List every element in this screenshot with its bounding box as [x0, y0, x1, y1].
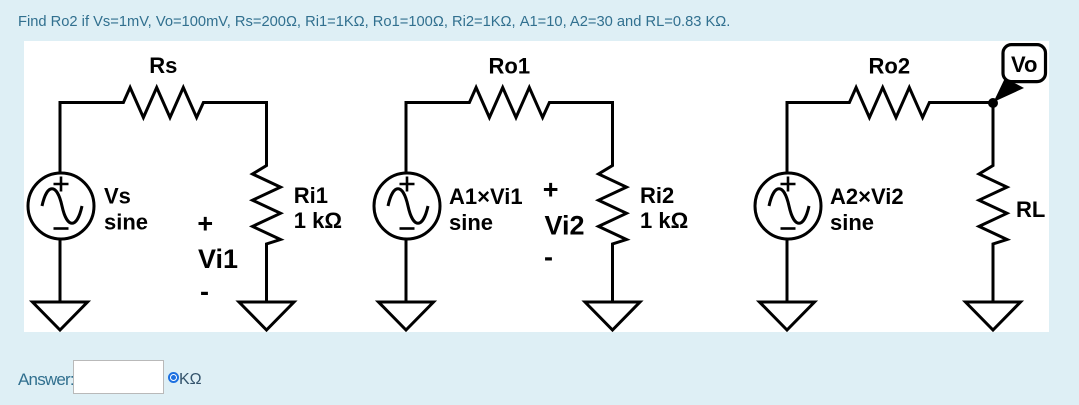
- svg-text:sine: sine: [830, 210, 874, 235]
- svg-text:1 kΩ: 1 kΩ: [640, 208, 688, 233]
- svg-text:Ri2: Ri2: [640, 183, 674, 208]
- svg-text:+: +: [543, 175, 559, 205]
- svg-text:sine: sine: [449, 210, 493, 235]
- svg-text:A1×Vi1: A1×Vi1: [449, 184, 523, 209]
- svg-text:Vi1: Vi1: [198, 244, 238, 274]
- svg-text:Ro1: Ro1: [489, 54, 531, 79]
- svg-text:Vo: Vo: [1011, 52, 1037, 77]
- svg-text:-: -: [200, 277, 209, 307]
- svg-text:Rs: Rs: [149, 53, 177, 78]
- svg-text:-: -: [544, 242, 553, 272]
- svg-text:Ri1: Ri1: [294, 183, 328, 208]
- svg-text:Vi2: Vi2: [545, 211, 585, 241]
- svg-text:+: +: [197, 209, 213, 239]
- svg-text:Vs: Vs: [104, 184, 131, 209]
- svg-text:A2×Vi2: A2×Vi2: [830, 184, 904, 209]
- svg-text:Ro2: Ro2: [869, 54, 911, 79]
- svg-text:sine: sine: [104, 210, 148, 235]
- svg-text:RL: RL: [1016, 197, 1045, 222]
- svg-text:1 kΩ: 1 kΩ: [294, 208, 342, 233]
